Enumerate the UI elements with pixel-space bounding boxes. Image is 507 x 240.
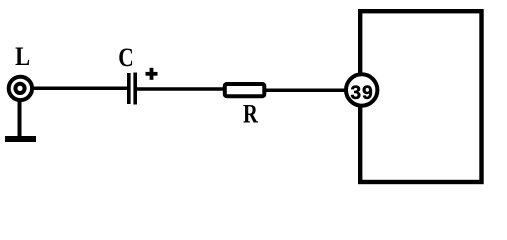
svg-text:R: R [243, 99, 258, 129]
wire [135, 87, 226, 91]
capacitor C [127, 73, 137, 105]
label R [243, 99, 258, 129]
wire [32, 87, 128, 91]
terminal L [9, 77, 32, 100]
wire [18, 99, 22, 139]
polarity + [146, 68, 158, 80]
ground [5, 136, 36, 142]
svg-text:39: 39 [351, 83, 374, 104]
svg-text:C: C [118, 42, 134, 72]
label L [15, 41, 30, 71]
svg-text:L: L [15, 41, 30, 71]
pin 39 [346, 74, 377, 105]
component box [360, 11, 481, 182]
label C [118, 42, 134, 72]
wire [265, 89, 346, 93]
resistor R [225, 84, 264, 96]
